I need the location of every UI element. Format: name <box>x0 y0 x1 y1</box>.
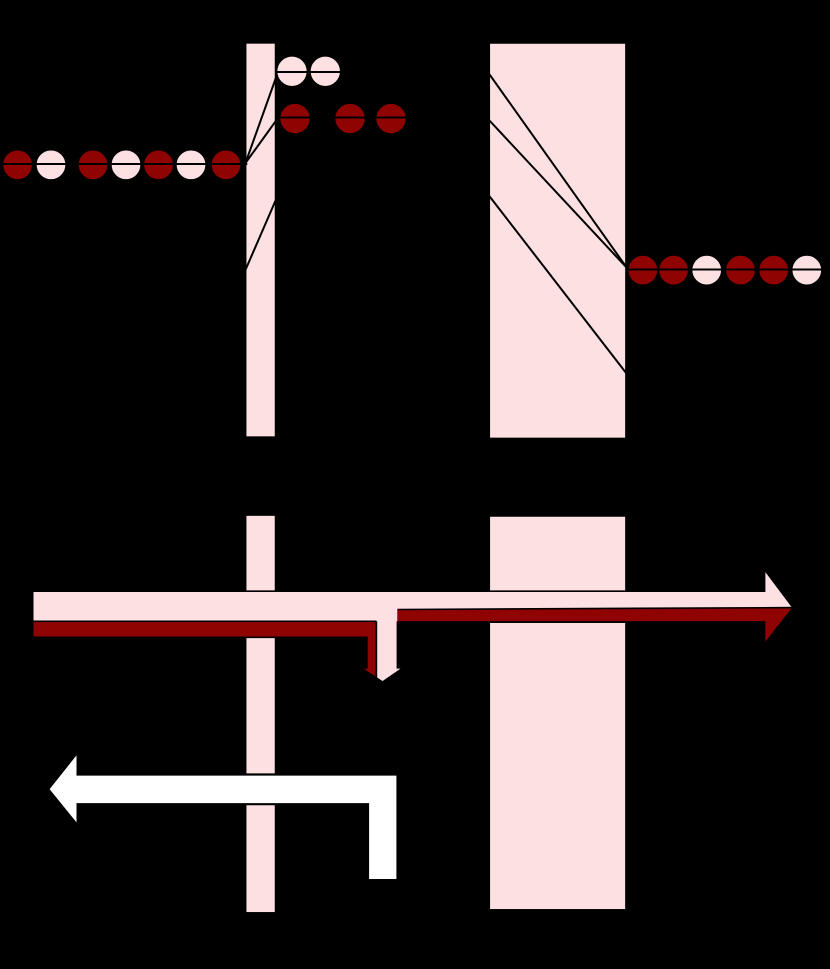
tunneling line D3 (barrier 2 lower diagonal) <box>489 195 627 374</box>
white return arrow (left) <box>48 752 397 880</box>
level line left row <box>1 163 247 165</box>
tunneling line D2 (barrier 2 middle diagonal) <box>489 120 628 269</box>
level line upper dark row <box>278 117 407 119</box>
electron row right (6 circles) <box>628 255 822 285</box>
tunnel barrier 2 (upper) <box>489 43 625 438</box>
tunneling line D1 (barrier 2 top diagonal) <box>489 73 628 268</box>
tunnel barrier 2 (lower) <box>489 516 625 910</box>
tunneling line B (left level to upper dark level) <box>246 118 279 163</box>
spin-polarized lower half of main arrow (dark red) <box>397 608 793 644</box>
main charge-current arrow (pale pink, right) <box>33 570 793 644</box>
down arrow pink fill (junction) <box>376 600 403 682</box>
tunneling line C (lower diagonal in barrier 1) <box>245 200 276 271</box>
tunnel barrier 1 (upper) <box>246 43 276 437</box>
tunneling line A (left level to upper pink level) <box>246 72 279 163</box>
tunnel barrier 1 (lower) <box>246 515 276 913</box>
electron row upper dark (3 circles) <box>280 103 407 134</box>
spin-current branch arrow (dark red, down) <box>33 621 377 678</box>
electron row upper pink (2 circles) <box>277 56 341 87</box>
electron row left (7 circles) <box>3 150 241 180</box>
level line upper pink row <box>276 71 341 73</box>
down arrow pink outline <box>376 621 403 682</box>
level line right row <box>626 269 825 271</box>
